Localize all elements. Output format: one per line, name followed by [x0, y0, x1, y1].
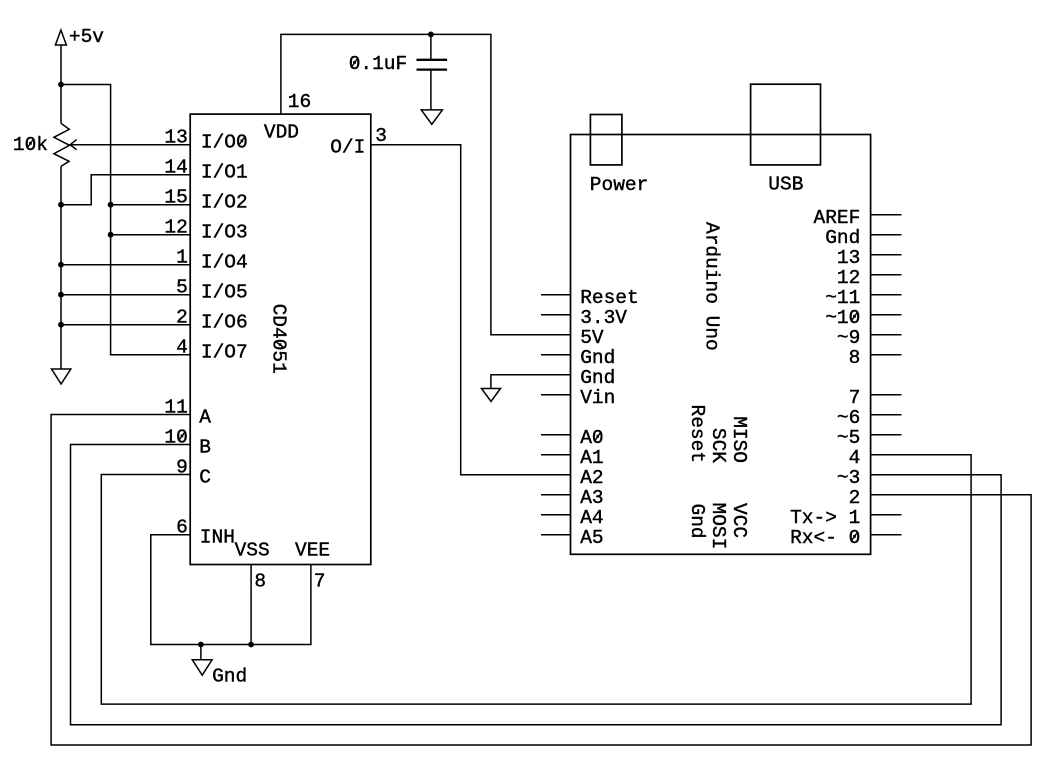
pin 8 (Arduino right) [849, 347, 902, 369]
pin A5 (Arduino left) [541, 527, 604, 549]
capacitor C1 0.1uF [349, 34, 447, 110]
svg-text:12: 12 [164, 217, 187, 239]
pin 6 INH labels [176, 517, 235, 549]
svg-text:Power: Power [590, 174, 649, 196]
svg-text:1: 1 [176, 247, 188, 269]
svg-text:I/O3: I/O3 [201, 221, 248, 243]
node: capacitor junction on VDD rail [428, 32, 434, 38]
pin 14 I/O1 labels [164, 157, 247, 184]
wire pin 1 I/O4 from ground rail [61, 264, 190, 266]
svg-text:O/I: O/I [330, 137, 365, 159]
potentiometer wiper arrow to pin 13 [70, 140, 190, 150]
op-amp U1 CD4051 multiplexer body [190, 114, 371, 564]
svg-text:SCK: SCK [707, 428, 729, 463]
pin 12 I/O3 labels [164, 217, 247, 244]
svg-text:5: 5 [176, 277, 188, 299]
pin ~5 (Arduino right) [837, 427, 902, 449]
pin Reset (Arduino left) [541, 287, 639, 309]
wire B pin 10 around bottom to Arduino pin 3 [71, 445, 1002, 725]
wire pin 2 I/O6 from ground rail [61, 324, 190, 326]
ground symbol below capacitor [421, 110, 442, 124]
pin 13 I/O0 labels [164, 127, 247, 154]
svg-text:A2: A2 [580, 467, 603, 489]
svg-text:8: 8 [849, 347, 861, 369]
svg-text:Gnd: Gnd [686, 504, 708, 539]
svg-text:2: 2 [849, 487, 861, 509]
pin Tx-> 1 (Arduino right) [790, 507, 901, 529]
svg-text:7: 7 [849, 387, 861, 409]
svg-text:Tx-> 1: Tx-> 1 [790, 507, 860, 529]
svg-text:~6: ~6 [837, 407, 860, 429]
svg-text:MISO: MISO [728, 416, 750, 463]
pin 11 A labels [164, 397, 211, 429]
svg-text:8: 8 [254, 570, 266, 592]
pin 16 VDD label [264, 91, 311, 144]
pin ~6 (Arduino right) [837, 407, 902, 429]
node: ground rail junction at VSS [248, 642, 254, 648]
svg-text:Reset: Reset [686, 405, 708, 464]
svg-text:A: A [199, 407, 211, 429]
pin A4 (Arduino left) [541, 507, 604, 529]
svg-text:12: 12 [837, 267, 860, 289]
wire +5V branch right and down rail to I/O7 pin 4 [61, 85, 190, 355]
wire pin 14 I/O1 jog to pot bottom [61, 175, 190, 205]
wire resistor bottom rail down to ground [60, 166, 62, 369]
svg-text:5V: 5V [580, 327, 604, 349]
svg-text:15: 15 [164, 187, 187, 209]
node: +5V branch junction [58, 82, 64, 88]
pin ~9 (Arduino right) [837, 327, 902, 349]
svg-text:MOSI: MOSI [707, 503, 729, 550]
svg-text:~3: ~3 [837, 467, 860, 489]
wire pin 5 I/O5 from ground rail [61, 294, 190, 296]
svg-text:I/O1: I/O1 [201, 161, 248, 183]
svg-text:7: 7 [314, 570, 326, 592]
svg-text:4: 4 [849, 447, 861, 469]
node: ground rail junction at I/O4 [58, 262, 64, 268]
ICSP labels Gnd MOSI VCC [686, 503, 750, 550]
pin 15 I/O2 labels [164, 187, 247, 214]
svg-text:13: 13 [837, 247, 860, 269]
pin 10 B labels [164, 427, 211, 459]
pin 5 I/O5 labels [176, 277, 248, 304]
pin 8 VSS labels [235, 540, 270, 593]
pin ~11 (Arduino right) [825, 287, 901, 309]
pin 3.3V (Arduino left) [541, 307, 627, 329]
wire C pin 9 around bottom to Arduino pin 4 [101, 455, 971, 704]
svg-text:~5: ~5 [837, 427, 860, 449]
svg-text:13: 13 [164, 127, 187, 149]
wire pin 12 I/O3 from +5V rail [111, 234, 191, 236]
node: rail junction at I/O2 [108, 202, 114, 208]
pin Gnd (Arduino right) [825, 227, 901, 249]
wire VSS pin 8 stub to ground rail [250, 565, 252, 645]
USB connector box [751, 84, 821, 195]
node: ground rail junction at I/O5 [58, 292, 64, 298]
svg-text:2: 2 [176, 307, 188, 329]
wire INH pin 6 to ground rail with VEE [151, 535, 311, 645]
wire pin 15 I/O2 from +5V rail [111, 204, 191, 206]
resistor R1 10k potentiometer [13, 123, 70, 166]
pin 12 (Arduino right) [837, 267, 902, 289]
svg-text:Gnd: Gnd [212, 666, 247, 688]
pin 4 (Arduino right) [849, 447, 861, 469]
pin ~3 (Arduino right) [837, 467, 860, 489]
wire VDD pin 16 to +5V rail over to Arduino 5V pin [281, 34, 571, 334]
node: ground rail junction at I/O6 [58, 322, 64, 328]
pin A3 (Arduino left) [541, 487, 604, 509]
node: pot bottom junction [58, 202, 64, 208]
node: ground rail junction at symbol [198, 642, 204, 648]
pin A2 (Arduino left) [580, 467, 603, 489]
svg-text:I/O6: I/O6 [201, 311, 248, 333]
ICSP labels Reset SCK MISO [686, 405, 750, 464]
svg-text:Gnd: Gnd [825, 227, 860, 249]
svg-text:VDD: VDD [264, 122, 299, 144]
svg-text:0.1uF: 0.1uF [349, 53, 408, 75]
svg-text:Arduino Uno: Arduino Uno [701, 222, 723, 351]
wire O/I pin 3 to Arduino A2 [371, 145, 571, 475]
wire Arduino Gnd pin to ground symbol [491, 375, 571, 389]
svg-text:4: 4 [176, 337, 188, 359]
svg-text:I/O4: I/O4 [201, 251, 248, 273]
svg-text:C: C [199, 467, 211, 489]
IC U2 Arduino Uno body [571, 135, 871, 555]
svg-text:AREF: AREF [814, 207, 861, 229]
svg-text:VEE: VEE [295, 540, 330, 562]
pin Vin (Arduino left) [541, 387, 615, 409]
pin Gnd (Arduino left) [541, 347, 615, 369]
svg-text:I/O2: I/O2 [201, 191, 248, 213]
pin 2 I/O6 labels [176, 307, 248, 334]
pin ~10 (Arduino right) [825, 307, 901, 329]
svg-text:I/O5: I/O5 [201, 281, 248, 303]
node: rail junction at I/O3 [108, 232, 114, 238]
pin AREF (Arduino right) [814, 207, 902, 229]
svg-text:A1: A1 [580, 447, 603, 469]
pin Gnd (Arduino left) [580, 367, 615, 389]
pin 4 I/O7 labels [176, 337, 248, 364]
svg-text:Reset: Reset [580, 287, 639, 309]
svg-text:10k: 10k [13, 134, 48, 156]
pin 13 (Arduino right) [837, 247, 902, 269]
pin 7 VEE labels [295, 540, 330, 593]
wire +5V lead down to resistor top [60, 45, 62, 123]
svg-text:+5v: +5v [69, 26, 104, 48]
pin Rx<- 0 (Arduino right) [790, 527, 901, 549]
svg-text:~9: ~9 [837, 327, 860, 349]
svg-text:B: B [199, 437, 211, 459]
pin 7 (Arduino right) [849, 387, 902, 409]
svg-text:3.3V: 3.3V [580, 307, 627, 329]
pin A1 (Arduino left) [541, 447, 604, 469]
svg-text:~10: ~10 [825, 307, 860, 329]
pin A0 (Arduino left) [541, 427, 604, 449]
svg-text:VSS: VSS [235, 540, 270, 562]
svg-text:16: 16 [288, 91, 311, 113]
svg-text:A3: A3 [580, 487, 603, 509]
svg-text:A5: A5 [580, 527, 603, 549]
svg-text:Gnd: Gnd [580, 347, 615, 369]
svg-text:~11: ~11 [825, 287, 860, 309]
svg-text:3: 3 [375, 125, 387, 147]
ground symbol Gnd under CD4051 [192, 645, 247, 688]
svg-text:Rx<- 0: Rx<- 0 [790, 527, 860, 549]
svg-text:Vin: Vin [580, 387, 615, 409]
svg-text:VCC: VCC [728, 503, 750, 538]
pin 5V (Arduino left) [580, 327, 604, 349]
ground symbol below potentiometer [52, 369, 71, 384]
svg-text:Gnd: Gnd [580, 367, 615, 389]
svg-text:A4: A4 [580, 507, 603, 529]
svg-text:CD4051: CD4051 [267, 304, 289, 374]
svg-text:A0: A0 [580, 427, 603, 449]
pin 3 O/I label [330, 125, 387, 159]
wire A pin 11 around bottom to Arduino pin 2 [51, 415, 1031, 746]
ground symbol at Arduino Gnd [482, 389, 501, 402]
pin 1 I/O4 labels [176, 247, 248, 274]
Power connector box [590, 115, 649, 196]
pin 9 C labels [176, 457, 211, 489]
svg-text:I/O7: I/O7 [201, 341, 248, 363]
svg-text:USB: USB [768, 173, 803, 195]
power symbol +5V [55, 26, 104, 48]
svg-text:14: 14 [164, 157, 187, 179]
pin 2 (Arduino right) [849, 487, 861, 509]
svg-text:INH: INH [200, 526, 235, 548]
